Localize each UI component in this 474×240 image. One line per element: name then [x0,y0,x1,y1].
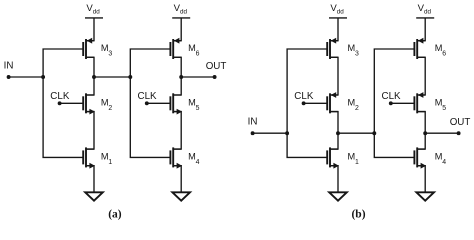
svg-text:OUT: OUT [206,61,227,72]
wire: M3 drain to M2 [86,57,94,95]
svg-text:M: M [348,43,356,53]
svg-text:OUT: OUT [450,117,471,128]
node OUT [425,117,470,135]
wire: input line to gates of M3 and M1 [287,49,327,157]
transistor M6 (PMOS) [170,38,181,59]
junction at stage output node [92,75,96,79]
junction on input gate line [41,75,45,79]
ground below M4 [172,166,190,201]
svg-text:2: 2 [355,105,359,112]
svg-text:5: 5 [442,105,446,112]
node IN [4,60,44,79]
node CLK (gate of M2) [50,91,83,105]
transistor M1 (NMOS) [83,147,95,168]
junction on input gate line [128,75,132,79]
svg-text:IN: IN [248,117,258,128]
svg-text:6: 6 [442,51,446,58]
svg-text:dd: dd [93,9,101,16]
svg-text:IN: IN [4,60,14,71]
transistor M2 (PMOS, clocked) [327,92,338,113]
wire: M5 to M4 drain [173,112,181,150]
svg-text:dd: dd [424,9,432,16]
power Vdd rail above M3 [85,3,103,18]
svg-text:CLK: CLK [382,91,402,102]
svg-text:(b): (b) [351,209,365,221]
svg-text:CLK: CLK [138,91,158,102]
node CLK (gate of M5) [382,91,415,105]
transistor M3 (PMOS) [83,38,94,59]
svg-text:CLK: CLK [294,91,314,102]
svg-text:6: 6 [196,51,200,58]
node IN [248,117,288,136]
wire: Vdd rail to M6 source [173,18,181,41]
transistor M3 (PMOS) [327,38,338,59]
svg-text:3: 3 [355,51,359,58]
svg-text:4: 4 [196,159,200,166]
wire: M3 drain to M2 [330,57,338,95]
transistor M2 (NMOS, clocked) [83,93,95,114]
svg-text:M: M [348,151,356,161]
transistor M6 (PMOS) [414,38,425,59]
svg-text:M: M [188,43,196,53]
power Vdd rail above M3 [329,3,347,18]
wire: M6 drain to M5 [173,57,181,95]
wire: Vdd rail to M3 source [330,18,338,41]
power Vdd rail above M6 [172,3,190,18]
junction on input gate line [285,131,289,135]
junction on input gate line [372,131,376,135]
svg-text:3: 3 [108,51,112,58]
ground below M4 [416,166,434,201]
transistor M4 (NMOS) [170,147,182,168]
svg-text:5: 5 [196,105,200,112]
transistor M5 (PMOS, clocked) [414,92,425,113]
svg-text:dd: dd [180,9,188,16]
junction at stage output node [336,131,340,135]
junction at stage output node [423,131,427,135]
svg-text:(a): (a) [108,209,122,221]
wire: M5 to M4 drain [417,112,425,150]
wire: input line to gates of M6 and M4 [130,49,170,157]
svg-text:dd: dd [337,9,345,16]
transistor M1 (NMOS) [327,147,339,168]
node CLK (gate of M2) [294,91,327,105]
transistor M4 (NMOS) [414,147,426,168]
svg-text:M: M [188,151,196,161]
wire: stage-1 output to stage-2 input [94,76,130,78]
wire: input line to gates of M3 and M1 [43,49,83,157]
ground below M1 [85,166,103,201]
svg-text:1: 1 [355,159,359,166]
svg-text:2: 2 [108,105,112,112]
wire: stage-1 output to stage-2 input [338,132,374,134]
svg-text:1: 1 [108,159,112,166]
node OUT [181,61,226,79]
svg-text:M: M [348,98,356,108]
ground below M1 [329,166,347,201]
power Vdd rail above M6 [416,3,434,18]
node CLK (gate of M5) [138,91,171,105]
wire: input line to gates of M6 and M4 [374,49,414,157]
svg-text:CLK: CLK [50,91,70,102]
svg-text:4: 4 [442,159,446,166]
junction at stage output node [179,75,183,79]
wire: M2 to M1 drain [86,112,94,150]
transistor M5 (NMOS, clocked) [170,93,182,114]
wire: M6 drain to M5 [417,57,425,95]
wire: Vdd rail to M6 source [417,18,425,41]
wire: Vdd rail to M3 source [86,18,94,41]
svg-text:M: M [188,98,196,108]
wire: M2 to M1 drain [330,112,338,150]
